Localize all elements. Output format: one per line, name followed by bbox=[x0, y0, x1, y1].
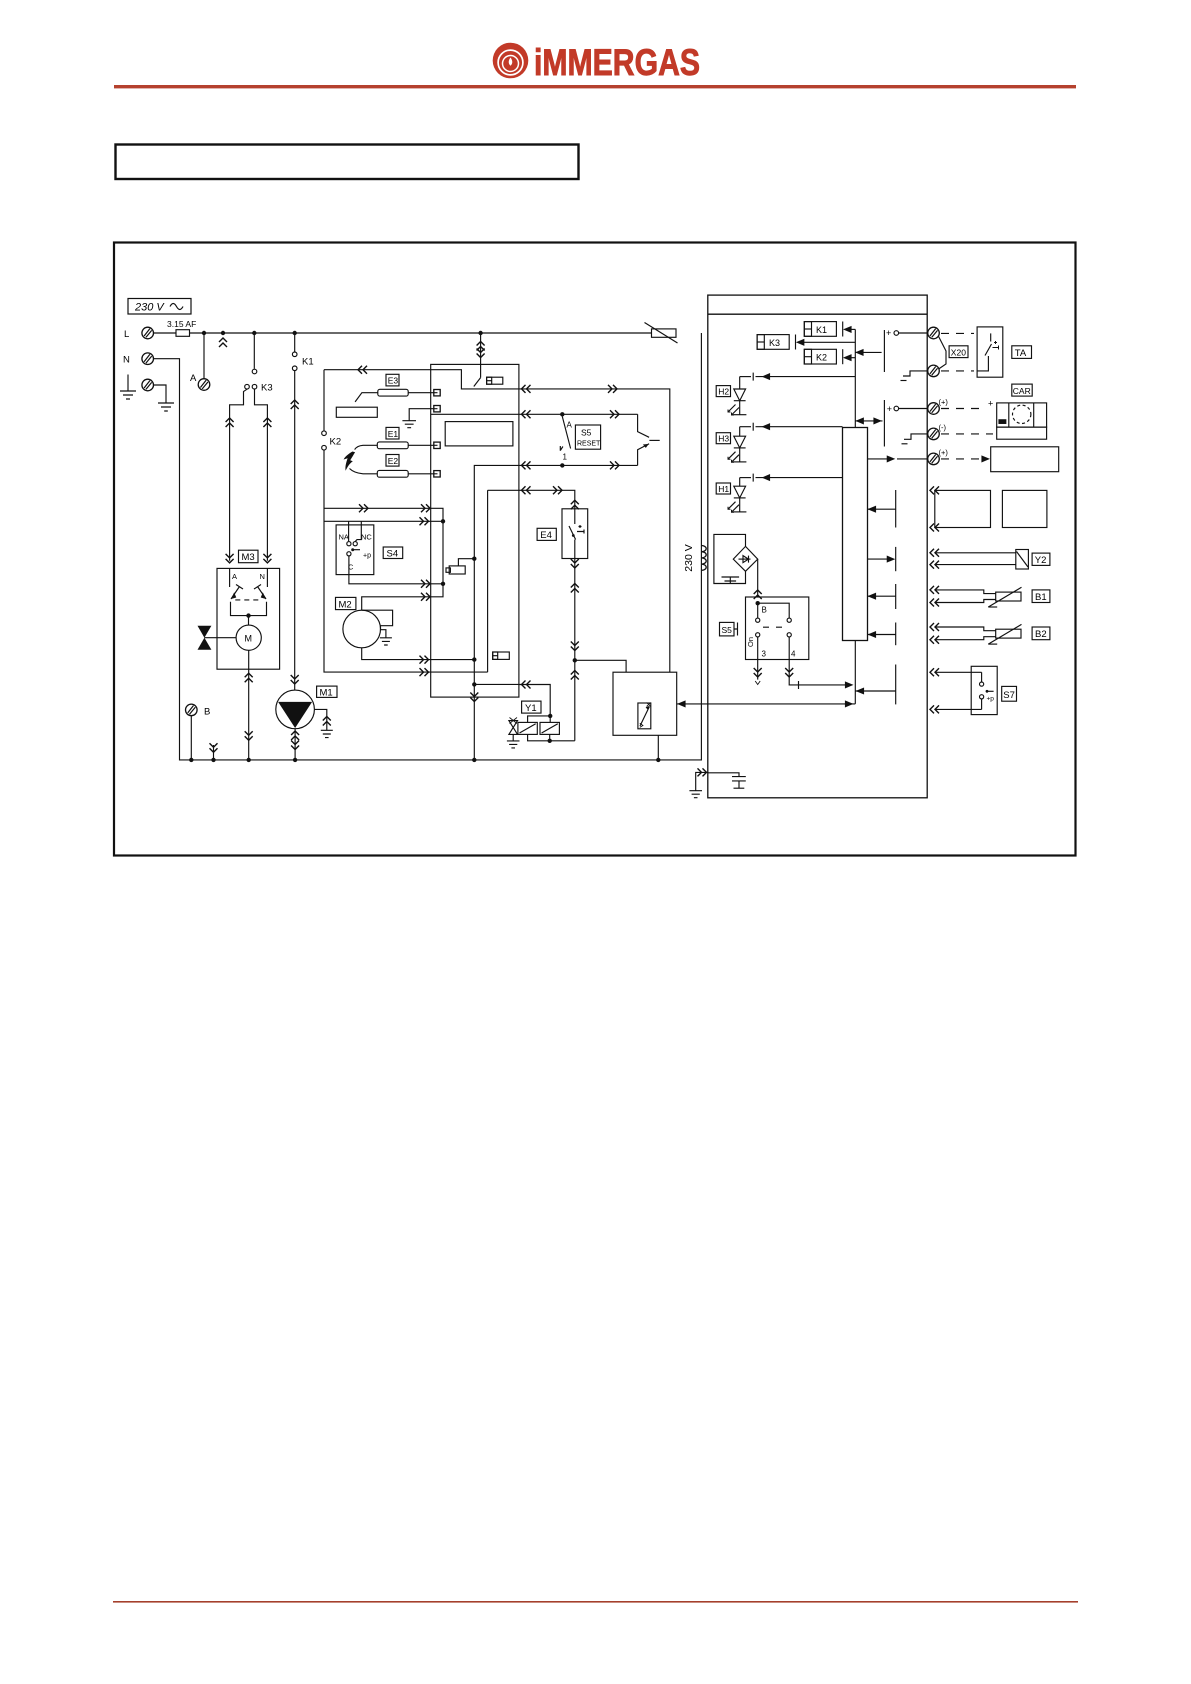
svg-text:H1: H1 bbox=[718, 484, 729, 494]
stub t5 row bbox=[868, 456, 894, 461]
label box S7 bbox=[1002, 686, 1017, 701]
svg-text:230 V: 230 V bbox=[683, 544, 695, 571]
diagram outer frame bbox=[114, 243, 1076, 856]
svg-text:B: B bbox=[762, 606, 767, 615]
svg-text:3.15 AF: 3.15 AF bbox=[167, 319, 196, 329]
LED H2 bbox=[716, 377, 746, 415]
transformer secondary loop bbox=[714, 534, 746, 583]
M3 winding N lead bbox=[266, 568, 268, 587]
label box S5 RESET bbox=[575, 425, 601, 449]
internal wire y414 bbox=[431, 413, 519, 415]
dashed wire t3 to CAR bbox=[941, 408, 986, 410]
IMMERGAS logo mark bbox=[493, 43, 529, 79]
relay contact K2 bbox=[322, 370, 488, 672]
header red rule bbox=[114, 85, 1076, 88]
node S5 1 bbox=[560, 463, 564, 467]
wire E4 net from burner control bbox=[519, 486, 579, 509]
stub B1 row bbox=[868, 594, 896, 599]
connector rail below block bbox=[854, 641, 856, 704]
node L2 bbox=[221, 331, 225, 335]
svg-text:N: N bbox=[260, 572, 265, 581]
wire B to bus bbox=[190, 716, 192, 760]
stub to X20 connector bbox=[855, 350, 881, 355]
node Y1 return bbox=[548, 739, 552, 743]
flow sensor B1 bbox=[988, 587, 1021, 607]
svg-text:S5: S5 bbox=[581, 428, 592, 438]
M3 winding arrows bbox=[231, 585, 266, 600]
svg-text:+p: +p bbox=[987, 696, 995, 703]
aux empty box 1 bbox=[935, 490, 991, 527]
H2 wire to rail bbox=[740, 373, 856, 381]
svg-text:Y2: Y2 bbox=[1035, 555, 1047, 566]
K2 top wire into burner control bbox=[324, 366, 431, 374]
node bus M3 bbox=[247, 758, 251, 762]
room thermostat TA box bbox=[977, 327, 1003, 377]
svg-text:+p: +p bbox=[363, 553, 371, 560]
gas valve coil Y2 bbox=[1016, 550, 1029, 570]
bridge output connector bbox=[754, 559, 762, 599]
gas valve Y1 coils bbox=[518, 716, 575, 741]
svg-text:B2: B2 bbox=[1035, 629, 1047, 640]
Y2 wires bbox=[930, 549, 1016, 569]
reset switch S5 bbox=[560, 417, 572, 462]
terminal t2 bbox=[928, 365, 940, 377]
label box E3 bbox=[386, 374, 399, 386]
node L4 bbox=[293, 331, 297, 335]
wire L to fuse bbox=[154, 332, 176, 334]
empty title box bbox=[116, 145, 579, 180]
svg-text:H2: H2 bbox=[718, 387, 729, 397]
connector chevron on node L2 bbox=[219, 338, 227, 347]
node L5 bbox=[478, 331, 482, 335]
relay coil K2 bbox=[804, 349, 855, 364]
svg-text:Y1: Y1 bbox=[525, 703, 537, 714]
small relay box inside bottom bbox=[493, 652, 510, 659]
H3 wire to connector block bbox=[740, 423, 843, 431]
relay coil K3 bbox=[757, 335, 855, 350]
node M3 common bbox=[246, 613, 250, 617]
wire S5 lower net (y465.4) bbox=[519, 461, 638, 469]
wire to modulator box bbox=[575, 660, 626, 672]
terminal PE bbox=[142, 379, 154, 391]
svg-text:3: 3 bbox=[762, 650, 767, 659]
LED H3 bbox=[716, 427, 746, 463]
connector column A tick 1 bbox=[883, 330, 885, 372]
PCB header band bbox=[708, 313, 927, 315]
pin E2 bbox=[434, 471, 440, 477]
label box S5 selector bbox=[720, 622, 738, 636]
pin E3 bbox=[434, 390, 440, 396]
svg-text:1: 1 bbox=[563, 453, 568, 462]
terminal t4 bbox=[928, 428, 940, 440]
multipin connector block bbox=[843, 428, 868, 641]
terminal lead t1 bbox=[886, 328, 928, 338]
PCB edge chevrons row1 bbox=[930, 486, 939, 531]
wire fuse to line bus bbox=[190, 332, 652, 334]
stub aux row bbox=[868, 507, 896, 512]
M3 winding A lead bbox=[229, 568, 231, 587]
dashed wire t4 to CAR bbox=[941, 433, 993, 435]
wire burner control to modulator (y389) bbox=[519, 385, 670, 672]
M3 bottom wire to bus bbox=[245, 650, 253, 760]
stub to CAR connector bbox=[855, 418, 882, 423]
H1 wire to connector block bbox=[740, 474, 843, 482]
fan M2 bbox=[343, 610, 393, 648]
B2 wires bbox=[930, 623, 996, 644]
svg-text:X20: X20 bbox=[951, 347, 966, 357]
chevron on loop bottom wire bbox=[420, 668, 429, 676]
label box M2 bbox=[336, 597, 356, 610]
node K2/C bbox=[441, 582, 445, 586]
bridge rectifier bbox=[733, 546, 757, 571]
flow switch S4 box bbox=[336, 525, 374, 575]
IMMERGAS wordmark bbox=[534, 42, 700, 83]
K2 bottom net wire bbox=[324, 504, 443, 610]
motor M (3-way valve) bbox=[236, 625, 261, 650]
plug component inside box bbox=[446, 559, 474, 574]
svg-text:S4: S4 bbox=[387, 549, 399, 560]
node E4/modulator bbox=[573, 658, 577, 662]
label box S4 bbox=[383, 547, 403, 560]
wire N down to bottom bus bbox=[154, 333, 702, 760]
internal wire to Y1 bbox=[474, 683, 519, 685]
svg-text:K1: K1 bbox=[302, 357, 314, 368]
S4 C lead to burner control bbox=[349, 556, 443, 588]
label box B2 bbox=[1032, 627, 1050, 640]
burner control exit connector below bbox=[470, 693, 478, 760]
label box Y2 bbox=[1032, 553, 1050, 566]
stub Y2 row bbox=[868, 556, 894, 561]
spark bolt bbox=[344, 452, 356, 471]
svg-text:A: A bbox=[567, 421, 573, 430]
flame signal transistor bbox=[638, 414, 660, 465]
S4 contacts bbox=[347, 542, 360, 556]
water pressure switch S7 bbox=[971, 666, 997, 714]
svg-text:A: A bbox=[190, 373, 197, 384]
overheat thermostat switch inside box bbox=[431, 364, 519, 389]
wire to motor bbox=[248, 616, 250, 626]
node L3 bbox=[252, 331, 256, 335]
contact 3 open lead bbox=[754, 637, 762, 685]
modulator bottom to bus bbox=[657, 735, 659, 760]
internal vertical S5 net bbox=[474, 465, 519, 697]
terminal lead t5 bbox=[897, 458, 928, 460]
svg-text:M2: M2 bbox=[339, 599, 352, 610]
svg-text:L: L bbox=[124, 329, 129, 340]
node Y1 feed bbox=[548, 714, 552, 718]
pump M1 bbox=[276, 690, 315, 729]
label box Y1 bbox=[522, 701, 541, 714]
svg-text:4: 4 bbox=[791, 650, 796, 659]
thermal fuse on L line bbox=[645, 323, 678, 344]
S4 NC lead bbox=[355, 521, 361, 541]
wire node L1 to terminal A bbox=[203, 333, 205, 378]
svg-text:TA: TA bbox=[1015, 348, 1027, 359]
X20 bracket bbox=[939, 337, 946, 370]
svg-text:230 V: 230 V bbox=[134, 302, 165, 314]
label box E2 bbox=[386, 455, 399, 467]
DHW sensor B2 bbox=[988, 624, 1021, 644]
PCB earth connector bbox=[689, 768, 707, 797]
svg-text:+: + bbox=[886, 328, 891, 338]
fuse F1 3.15AF bbox=[171, 328, 190, 337]
controller blank rect inside box bbox=[445, 422, 513, 446]
PCB box bbox=[708, 295, 927, 798]
terminal N bbox=[142, 353, 154, 365]
footer red rule bbox=[113, 1601, 1078, 1603]
pin E1 bbox=[434, 442, 440, 448]
E4 loop net bbox=[488, 490, 519, 672]
M1 bottom wire to bus bbox=[291, 729, 299, 760]
stub S7 row bbox=[855, 688, 895, 693]
flue thermostat E4 bbox=[562, 509, 588, 559]
svg-text:K2: K2 bbox=[330, 437, 342, 448]
svg-text:CAR: CAR bbox=[1013, 386, 1031, 396]
ignition electrode E2 bbox=[350, 469, 434, 478]
svg-text:H3: H3 bbox=[718, 434, 729, 444]
svg-text:RESET: RESET bbox=[577, 441, 601, 448]
svg-text:iMMERGAS: iMMERGAS bbox=[534, 42, 700, 83]
relay contact K3 bbox=[226, 333, 272, 563]
svg-text:(+): (+) bbox=[939, 398, 949, 407]
svg-text:E3: E3 bbox=[388, 376, 399, 386]
svg-text:A: A bbox=[232, 572, 237, 581]
svg-text:M3: M3 bbox=[242, 552, 255, 563]
svg-text:+: + bbox=[887, 404, 892, 414]
node bus B bbox=[189, 758, 193, 762]
winter/summer switch S5 box bbox=[746, 597, 809, 660]
connector column A tick 2 bbox=[883, 400, 885, 447]
dashed wire t2 to TA bbox=[941, 370, 974, 372]
wire PE to ground bbox=[154, 385, 166, 403]
svg-text:K1: K1 bbox=[816, 325, 827, 335]
connector column B ticks bbox=[895, 490, 897, 704]
pin ground bbox=[434, 406, 440, 412]
remote control CAR device bbox=[997, 403, 1047, 439]
E4 to gas valve wire bbox=[571, 559, 579, 741]
230V supply label box bbox=[128, 299, 191, 315]
S7 wires bbox=[930, 668, 982, 713]
ignition electrode E1 bbox=[355, 442, 434, 450]
terminal t1 bbox=[928, 327, 940, 339]
M1 right wire to ground bbox=[314, 709, 332, 737]
gas valve modulator box bbox=[613, 672, 677, 735]
node B bbox=[756, 601, 760, 605]
M2 bottom wire bbox=[362, 648, 475, 664]
svg-text:M1: M1 bbox=[320, 687, 333, 698]
relay common rail bbox=[854, 329, 856, 427]
label box M3 bbox=[239, 550, 259, 563]
dashed wire t1 to TA bbox=[941, 332, 974, 334]
node bus modulator bbox=[656, 758, 660, 762]
svg-text:NC: NC bbox=[361, 533, 372, 542]
Y1 valve symbol bbox=[509, 718, 518, 735]
svg-text:NA: NA bbox=[339, 533, 349, 542]
terminal L bbox=[142, 327, 154, 339]
svg-text:B1: B1 bbox=[1035, 592, 1047, 603]
bus stub connector bbox=[210, 743, 218, 760]
diverter valve motor M3 box bbox=[217, 568, 280, 669]
ground of M2 bbox=[380, 638, 392, 645]
svg-text:E2: E2 bbox=[388, 456, 399, 466]
B1 wires bbox=[930, 586, 996, 607]
node L1 bbox=[202, 331, 206, 335]
svg-text:E4: E4 bbox=[540, 530, 552, 541]
svg-text:S7: S7 bbox=[1003, 690, 1015, 701]
PCB filter capacitor bbox=[708, 773, 746, 788]
node M2 return bbox=[472, 657, 476, 661]
NA net wire bbox=[324, 520, 443, 522]
label box TA bbox=[1012, 346, 1032, 359]
M3 winding outputs to common bbox=[231, 602, 267, 616]
svg-text:(-): (-) bbox=[939, 423, 947, 432]
svg-text:K3: K3 bbox=[261, 383, 273, 394]
modulator control wire from PCB bbox=[677, 701, 856, 706]
ground wire of pin2 bbox=[402, 409, 433, 428]
terminal t5 bbox=[928, 453, 940, 465]
PE symbol left bbox=[120, 375, 136, 400]
label box E1 bbox=[386, 427, 399, 439]
node bus burner bbox=[472, 758, 476, 762]
svg-text:(+): (+) bbox=[939, 448, 949, 457]
terminal t3 bbox=[928, 403, 940, 415]
aux supply box bbox=[991, 447, 1059, 472]
label box E4 bbox=[537, 528, 556, 541]
transformer primary coil bbox=[701, 546, 706, 571]
svg-text:+: + bbox=[988, 399, 993, 409]
wire S5 upper net (y414.3) bbox=[519, 410, 638, 418]
valve symbol bbox=[198, 626, 237, 650]
terminal B bbox=[186, 704, 198, 716]
label box B1 bbox=[1032, 590, 1050, 603]
terminal lead t3 bbox=[887, 404, 928, 414]
Y1 ground bbox=[507, 734, 520, 748]
svg-text:E1: E1 bbox=[388, 429, 399, 439]
mains entry connector to burner control bbox=[477, 333, 485, 364]
label box X20 bbox=[949, 346, 968, 358]
aux empty box 2 bbox=[1002, 490, 1047, 527]
S4 NA lead bbox=[348, 521, 350, 541]
wires group: default style bbox=[120, 319, 701, 760]
stub B2 row bbox=[868, 632, 896, 637]
node bus M1 bbox=[293, 758, 297, 762]
svg-text:B: B bbox=[204, 707, 210, 718]
svg-text:On: On bbox=[746, 637, 755, 647]
svg-text:K2: K2 bbox=[816, 353, 827, 363]
dashed wire t5 to aux box bbox=[941, 456, 989, 461]
burner control unit box bbox=[431, 364, 519, 697]
terminal lead t4 shield bbox=[902, 434, 928, 444]
label box CAR bbox=[1012, 384, 1032, 396]
node plug branch bbox=[472, 557, 476, 561]
terminal A bbox=[198, 379, 210, 391]
selector contacts bbox=[756, 603, 792, 637]
svg-text:N: N bbox=[123, 355, 130, 366]
relay contact K1 bbox=[291, 333, 299, 690]
svg-text:S5: S5 bbox=[722, 625, 733, 635]
M3 mechanical link dashed bbox=[235, 599, 260, 601]
contact 4 lead to PCB bbox=[785, 637, 852, 689]
relay coil K1 bbox=[804, 322, 855, 337]
aux box row wires bbox=[934, 490, 936, 527]
wire Y1 feed from burner control bbox=[519, 681, 550, 716]
LED H1 bbox=[716, 478, 746, 513]
svg-text:K3: K3 bbox=[769, 338, 780, 348]
terminal lead t2 shield bbox=[901, 371, 928, 381]
spark transformer blank box bbox=[336, 407, 377, 417]
ground of PE wire bbox=[158, 403, 174, 411]
detection electrode E3 bbox=[355, 389, 434, 402]
node bus stub bbox=[211, 758, 215, 762]
label box M1 bbox=[317, 686, 337, 698]
node K2/NA bbox=[441, 519, 445, 523]
secondary ground bbox=[722, 577, 740, 584]
modulator regulator symbol bbox=[638, 703, 651, 729]
node S5 A bbox=[560, 412, 564, 416]
svg-text:M: M bbox=[245, 634, 253, 644]
node Y1 branch bbox=[472, 682, 476, 686]
